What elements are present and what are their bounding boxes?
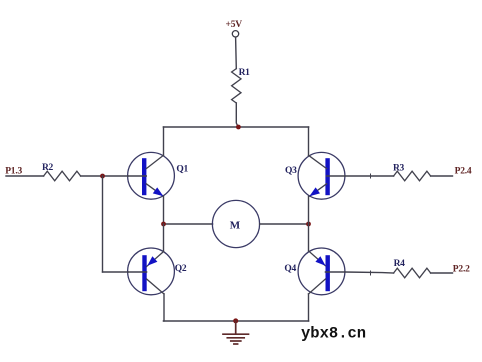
motor M	[212, 200, 259, 247]
pin tick Q3 base	[370, 174, 372, 178]
transistor Q2	[128, 248, 175, 295]
resistor R1	[232, 69, 241, 103]
wire Q4 collector to bottom rail	[308, 294, 310, 321]
wire R2 to base junction	[81, 175, 128, 177]
wire Q3 base lead	[345, 175, 394, 177]
node mid-left junction	[161, 222, 166, 227]
terminal +5V	[232, 31, 238, 37]
svg-text:R1: R1	[239, 68, 251, 78]
svg-text:M: M	[230, 220, 241, 232]
wire Q4 base lead	[345, 272, 394, 273]
wire motor to right mid node	[260, 223, 309, 225]
node base junction left	[100, 174, 105, 179]
ground	[223, 321, 249, 344]
wire Q2 collector to bottom rail	[163, 294, 165, 321]
svg-text:Q3: Q3	[285, 166, 297, 176]
resistor R2	[44, 171, 81, 181]
resistor R3	[394, 171, 431, 181]
node ground junction	[233, 318, 238, 323]
svg-text:P1.3: P1.3	[5, 167, 22, 177]
svg-text:Q1: Q1	[176, 165, 188, 175]
wire right rail upper	[308, 127, 310, 155]
wire top rail	[164, 126, 309, 128]
wire Q3 emitter to right mid node	[308, 196, 310, 224]
svg-text:Q2: Q2	[175, 264, 187, 274]
wire base junction down	[102, 176, 104, 272]
node top junction	[236, 125, 241, 130]
wire R3 to P2.4	[431, 175, 453, 177]
wire bottom rail	[164, 320, 309, 322]
node mid-right junction	[306, 222, 311, 227]
svg-text:ybx8.cn: ybx8.cn	[301, 325, 366, 343]
wire left rail upper	[163, 127, 165, 155]
resistor R4	[394, 268, 431, 278]
svg-text:R4: R4	[394, 259, 406, 269]
wire R1 to top rail	[236, 103, 238, 127]
wire R4 to P2.2	[431, 272, 453, 274]
svg-text:R3: R3	[393, 164, 405, 174]
svg-text:+5V: +5V	[226, 20, 243, 30]
wire Q1 emitter to mid node	[163, 196, 165, 224]
transistor Q4	[298, 248, 345, 295]
wire left rail to Q2 emitter	[163, 224, 165, 252]
transistor Q3	[298, 152, 345, 199]
wire mid node to motor	[164, 223, 213, 225]
wire +5V stem	[235, 37, 238, 68]
transistor Q1	[128, 152, 175, 199]
svg-text:R2: R2	[42, 163, 54, 173]
pin tick Q4 base	[370, 271, 372, 275]
wire to Q2 base	[103, 271, 129, 273]
svg-text:P2.4: P2.4	[455, 167, 472, 177]
svg-text:P2.2: P2.2	[453, 265, 470, 275]
wire P1.3 lead	[6, 175, 44, 177]
svg-text:Q4: Q4	[284, 264, 296, 274]
wire right mid node down to Q4	[308, 224, 310, 252]
